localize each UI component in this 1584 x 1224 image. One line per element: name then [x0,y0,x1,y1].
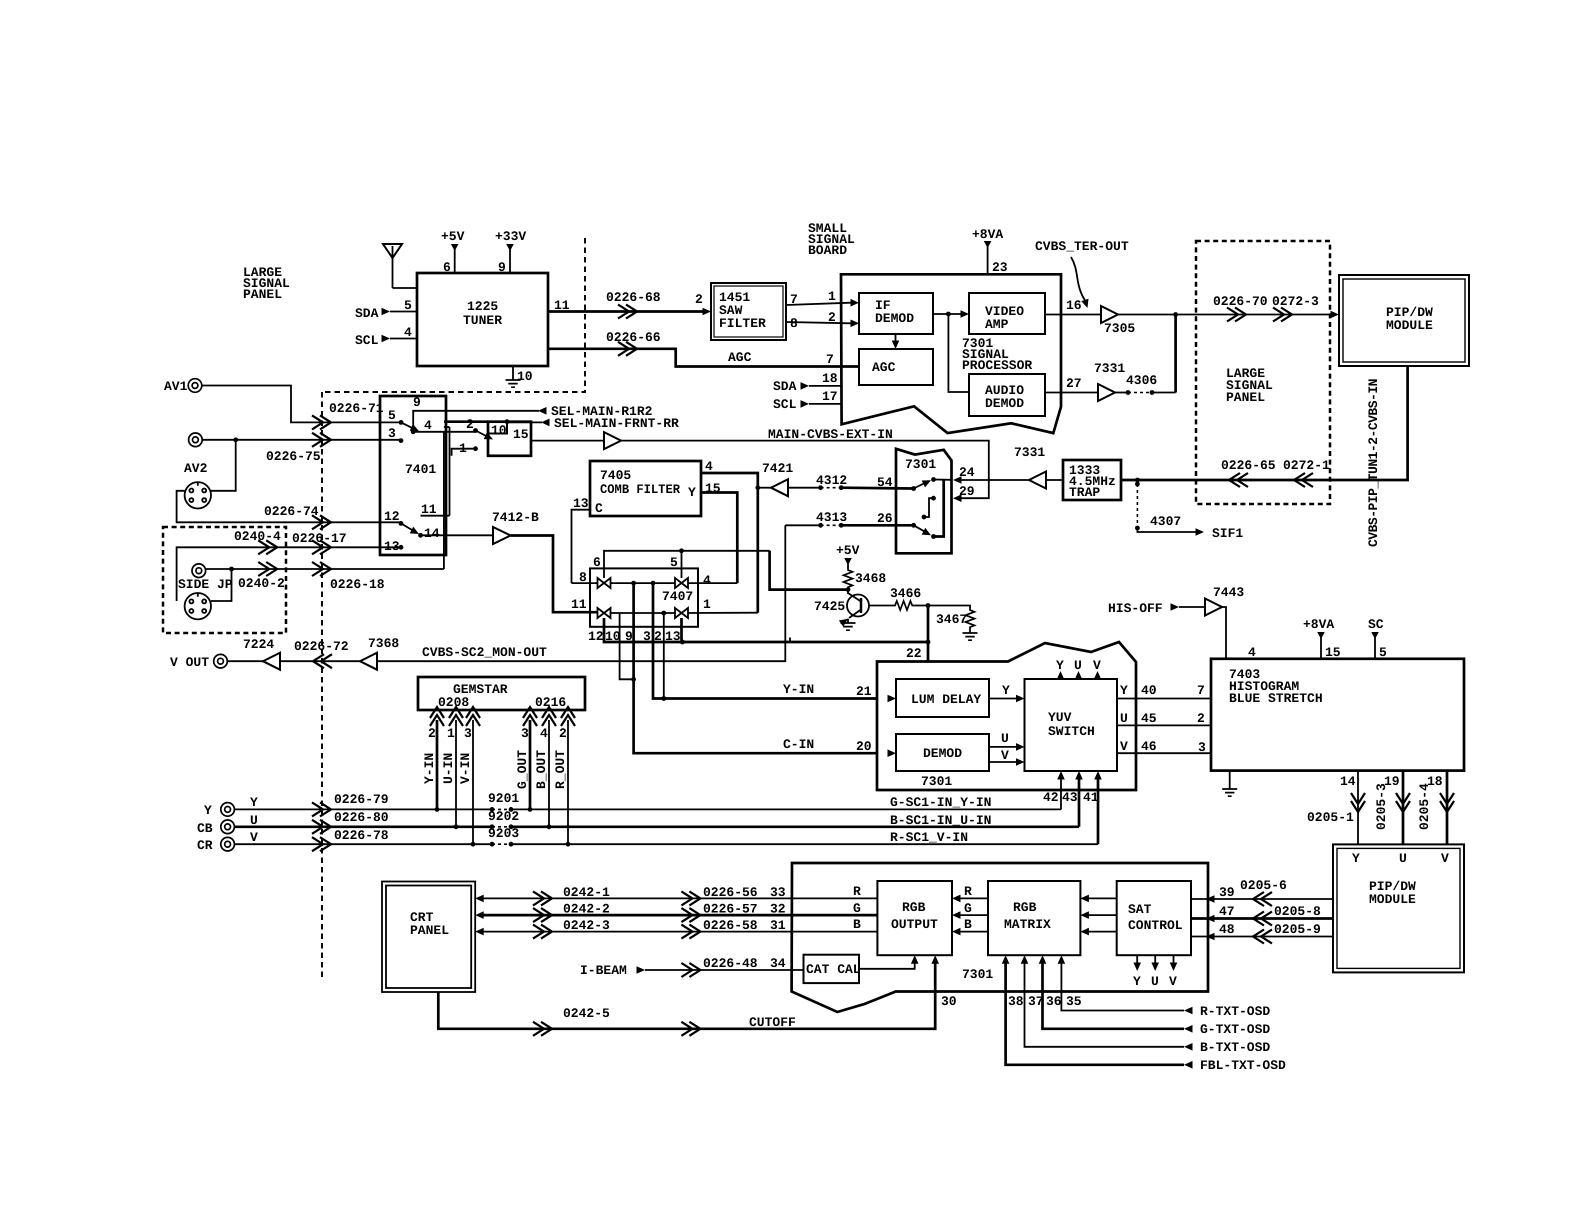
block DEMOD [896,734,989,771]
jumper 9203 [490,842,495,847]
connector side DIN [185,593,211,619]
svg-text:SIF1: SIF1 [1212,526,1243,541]
svg-text:+8VA: +8VA [1303,617,1334,632]
wire audio join video path [1174,315,1177,393]
buffer 7305 [1101,306,1118,323]
wire 7305 to PIP/DW module [1118,314,1332,316]
switch interior wires [934,480,944,537]
svg-text:TUNER: TUNER [463,313,502,328]
svg-text:G-SC1-IN_Y-IN: G-SC1-IN_Y-IN [890,795,991,810]
svg-text:CUTOFF: CUTOFF [749,1015,796,1030]
svg-text:0205-8: 0205-8 [1274,904,1321,919]
wire V-IN gemstar [472,720,474,844]
block LUM DELAY [896,679,989,717]
switch IC 7301 (cvbs select) [896,449,952,554]
svg-text:DEMOD: DEMOD [875,311,914,326]
svg-text:U-IN: U-IN [441,753,456,784]
wire node to YUV pin 22 [927,606,930,662]
svg-text:AV2: AV2 [184,461,208,476]
svg-text:7331: 7331 [1094,361,1125,376]
svg-text:2: 2 [559,726,567,741]
IC 7403 HISTOGRAM BLUE STRETCH [1211,659,1464,771]
wire IF demod to AGC [895,334,897,342]
svg-text:30: 30 [941,994,957,1009]
wire matrix G to rgb output [959,914,988,916]
svg-text:CVBS-SC2_MON-OUT: CVBS-SC2_MON-OUT [422,645,547,660]
svg-text:5: 5 [404,298,412,313]
svg-text:SDA: SDA [355,306,379,321]
wire U-IN gemstar [455,720,457,827]
wire AV2 cvbs to 7401 pin 3, connector 0226-75 [202,439,401,441]
gate top-right [675,578,688,588]
svg-text:Y: Y [1056,658,1064,673]
svg-text:10: 10 [491,423,507,438]
svg-text:38: 38 [1008,994,1024,1009]
svg-text:0242-3: 0242-3 [563,918,610,933]
svg-text:7412-B: 7412-B [492,510,539,525]
svg-text:LUM DELAY: LUM DELAY [911,692,981,707]
svg-text:0226-65: 0226-65 [1221,458,1276,473]
module PIP/DW (bottom) [1333,844,1464,972]
wire 7421 net down [770,551,848,590]
svg-text:RGB: RGB [1013,900,1037,915]
wire AV1 to 7401 pin 5, connector 0226-71 [202,386,401,423]
svg-text:7224: 7224 [243,637,274,652]
wire MAIN-CVBS-EXT-IN with buffer [531,440,604,442]
svg-text:AGC: AGC [872,360,896,375]
svg-text:11: 11 [571,597,587,612]
svg-text:2: 2 [695,292,703,307]
svg-text:U: U [1399,851,1407,866]
svg-text:0240-4: 0240-4 [234,529,281,544]
svg-text:0226-57: 0226-57 [703,902,758,917]
wire PIP pin 48 to SAT, connector 0205-9 [1191,936,1333,938]
svg-text:23: 23 [992,260,1008,275]
wire SEL-MAIN-FRNT-RR [505,419,510,424]
svg-text:7368: 7368 [368,636,399,651]
svg-text:7: 7 [1197,683,1205,698]
wire YUV V out 46 to histogram pin 3 [1117,752,1211,754]
buffer 7368 [360,653,377,670]
svg-text:Y-IN: Y-IN [422,753,437,784]
wire PIP/DW down to trap, connectors 0272-1 0226-65 [1121,366,1408,480]
svg-text:Y: Y [204,803,212,818]
wire YUV Y out 40 to histogram pin 7 [1117,698,1211,700]
svg-text:V-IN: V-IN [458,753,473,784]
svg-text:29: 29 [959,484,975,499]
wire board boundary dashed [322,238,585,392]
buffer 7412-B [421,534,494,536]
svg-text:10: 10 [517,369,533,384]
svg-text:+5V: +5V [836,543,860,558]
block RGB MATRIX [988,881,1080,955]
svg-text:V: V [250,830,258,845]
svg-text:PROCESSOR: PROCESSOR [962,358,1032,373]
svg-text:4: 4 [424,418,432,433]
svg-text:31: 31 [770,918,786,933]
connector chevrons under GEMSTAR [430,707,444,726]
svg-text:0272-1: 0272-1 [1283,458,1330,473]
wire connector 0226-72 [280,660,360,662]
wire 7412-B out to 7407 pin 11 [511,536,598,613]
svg-text:V: V [1169,974,1177,989]
wire B 7412 through gates pin 11 to pin 1 [611,612,676,614]
svg-text:AGC: AGC [728,350,752,365]
wire Y bus G-SC1-IN_Y-IN [234,808,492,810]
svg-text:33: 33 [770,885,786,900]
svg-text:0226-72: 0226-72 [294,639,349,654]
block RGB OUTPUT [877,881,952,955]
svg-text:SWITCH: SWITCH [1048,724,1095,739]
svg-text:0226-79: 0226-79 [334,792,389,807]
svg-text:5: 5 [1379,645,1387,660]
svg-text:V: V [1093,658,1101,673]
svg-text:4306: 4306 [1126,373,1157,388]
svg-text:MODULE: MODULE [1369,892,1416,907]
buffer 7224 [263,653,280,670]
antenna [383,244,402,258]
buffer 7421 [771,479,788,496]
connector AV2 CVBS [189,433,203,447]
svg-text:B_OUT: B_OUT [534,750,549,789]
svg-text:34: 34 [770,956,786,971]
panel CRT PANEL [382,882,475,993]
wire riser pin 43 [1078,778,1081,827]
svg-text:3468: 3468 [855,571,886,586]
wire CAT CAL to RGB output [859,962,915,969]
svg-text:G_OUT: G_OUT [515,750,530,789]
svg-text:5: 5 [388,408,396,423]
switch IC 7407 [590,568,698,626]
svg-text:0272-3: 0272-3 [1272,294,1319,309]
svg-text:5: 5 [670,555,678,570]
svg-text:14: 14 [1340,774,1356,789]
svg-text:6: 6 [593,555,601,570]
svg-text:7331: 7331 [1014,445,1045,460]
svg-text:7407: 7407 [662,589,693,604]
svg-text:B: B [964,917,972,932]
block SAT CONTROL [1117,881,1191,955]
svg-text:13: 13 [384,539,400,554]
svg-text:45: 45 [1141,711,1157,726]
svg-text:V OUT: V OUT [170,655,209,670]
svg-text:COMB FILTER: COMB FILTER [600,482,680,497]
svg-text:1: 1 [703,597,711,612]
switch IC 7401 [380,396,446,555]
svg-text:0226-80: 0226-80 [334,810,389,825]
wire G to CRT, connectors 0242-2 0226-57 pin 32 [475,911,484,919]
wire riser pin 42 [1060,778,1062,809]
ground transistor emitter [847,619,849,623]
svg-text:3466: 3466 [890,586,921,601]
svg-text:42: 42 [1043,790,1059,805]
svg-text:32: 32 [770,902,786,917]
svg-text:G: G [964,901,972,916]
svg-text:0242-1: 0242-1 [563,885,610,900]
jumper 9202 [490,824,495,829]
svg-text:16: 16 [1066,298,1082,313]
svg-text:0226-70: 0226-70 [1213,294,1268,309]
svg-text:0205-4: 0205-4 [1417,783,1432,830]
jumper 4312 [788,487,821,489]
svg-text:0226-71: 0226-71 [329,401,384,416]
svg-text:0226-56: 0226-56 [703,885,758,900]
svg-text:9203: 9203 [488,826,519,841]
svg-text:DEMOD: DEMOD [985,396,1024,411]
svg-text:43: 43 [1062,790,1078,805]
svg-text:0226-78: 0226-78 [334,828,389,843]
svg-text:21: 21 [856,684,872,699]
svg-text:0242-5: 0242-5 [563,1006,610,1021]
svg-text:27: 27 [1066,376,1082,391]
svg-text:B-SC1-IN_U-IN: B-SC1-IN_U-IN [890,813,991,828]
svg-text:12: 12 [588,629,604,644]
switch lever pin 54 [911,486,916,491]
svg-text:DEMOD: DEMOD [923,746,962,761]
wire CUTOFF to pin 30 [438,962,935,1029]
dashed LARGE SIGNAL PANEL box [1196,241,1330,504]
wire tuner AGC out, connector 0226-66 [548,349,859,367]
svg-text:PANEL: PANEL [410,923,449,938]
svg-text:3467: 3467 [936,612,967,627]
ground histogram [1229,771,1231,789]
svg-text:+5V: +5V [441,229,465,244]
svg-text:BLUE STRETCH: BLUE STRETCH [1229,691,1323,706]
block YUV SWITCH [1025,679,1118,771]
svg-text:U: U [1151,974,1159,989]
wire sat to matrix B [1087,931,1117,933]
wire AV2 DIN to 7401 pin 12, connector 0226-74 [177,491,401,523]
wire matrix B to rgb output [959,931,988,933]
wire V OUT to buffer 7224 [227,660,263,662]
svg-text:SCL: SCL [773,397,797,412]
wire matrix R to rgb output [959,897,988,899]
wire riser pin 41 [1097,778,1100,844]
wire R to CRT, connectors 0242-1 0226-56 pin 33 [475,895,484,903]
svg-text:B-TXT-OSD: B-TXT-OSD [1200,1040,1270,1055]
svg-text:15: 15 [513,427,529,442]
svg-text:4312: 4312 [816,473,847,488]
svg-text:0226-66: 0226-66 [606,330,661,345]
box pins 10 15 [488,422,531,456]
svg-text:MATRIX: MATRIX [1004,917,1051,932]
wire side DIN to 7401 pin 13, connectors 0240-4 0226-17 [177,547,401,601]
svg-text:SCL: SCL [355,333,379,348]
svg-text:U: U [1001,731,1009,746]
svg-text:46: 46 [1141,739,1157,754]
wire IF demod to video amp, junction [933,313,962,315]
svg-text:0205-3: 0205-3 [1374,783,1389,830]
wire PIP pin 39 to SAT, connector 0205-6 [1191,898,1333,900]
filter 1451 SAW FILTER [711,283,786,340]
module GEMSTAR [418,677,585,710]
svg-text:40: 40 [1141,683,1157,698]
wire G-TXT-OSD to matrix pin 36 [1043,962,1185,1029]
svg-text:0205-6: 0205-6 [1240,878,1287,893]
block AGC [859,349,933,385]
jumper 4306 [1115,392,1128,394]
resistor 3468 [844,568,853,589]
svg-text:0226-18: 0226-18 [330,577,385,592]
svg-text:7443: 7443 [1213,585,1244,600]
block VIDEO AMP [969,293,1045,334]
jumper 4307 to SIF1 [1135,478,1140,483]
wire PIP pin 47 to SAT, connector 0205-8 [1191,917,1333,920]
svg-text:V: V [1441,851,1449,866]
svg-text:OUTPUT: OUTPUT [891,917,938,932]
buffer 7443 [1205,599,1222,616]
wire 7407 pin 5 riser [681,551,683,578]
IC 7301 RGB section outline [792,863,1208,1012]
svg-text:2: 2 [1197,711,1205,726]
ground tuner pin 10 [512,366,514,380]
svg-text:SC: SC [1368,617,1384,632]
wire 7407 pin 13 gate riser [680,618,683,642]
wire B_OUT gemstar [548,720,550,827]
svg-text:2: 2 [466,417,474,432]
svg-text:7425: 7425 [814,599,845,614]
svg-text:4307: 4307 [1150,514,1181,529]
wire FBL-TXT-OSD to matrix pin 38 [1006,962,1184,1065]
svg-text:3: 3 [521,726,529,741]
svg-text:1225: 1225 [467,299,498,314]
svg-text:CAT CAL: CAT CAL [806,962,861,977]
wire G_OUT gemstar [529,720,532,809]
svg-text:Y: Y [688,485,696,500]
svg-text:YUV: YUV [1048,710,1072,725]
svg-text:1: 1 [828,289,836,304]
wire R-TXT-OSD to matrix pin 35 [1061,962,1184,1011]
svg-text:Y-IN: Y-IN [783,682,814,697]
svg-text:15: 15 [1325,645,1341,660]
svg-text:MAIN-CVBS-EXT-IN: MAIN-CVBS-EXT-IN [768,427,893,442]
wire R_OUT gemstar [567,720,569,844]
svg-text:MODULE: MODULE [1386,318,1433,333]
svg-text:Y: Y [1002,683,1010,698]
svg-text:7405: 7405 [600,468,631,483]
wire trap out to switch pin 24 [955,479,1029,481]
svg-text:Y: Y [1120,683,1128,698]
wire video amp pin 16 to buffer 7305 [1045,314,1101,316]
svg-text:7: 7 [826,352,834,367]
svg-text:CB: CB [197,821,213,836]
svg-text:SDA: SDA [773,379,797,394]
svg-text:4: 4 [404,325,412,340]
svg-text:CVBS_TER-OUT: CVBS_TER-OUT [1035,239,1129,254]
svg-text:24: 24 [959,465,975,480]
svg-text:22: 22 [906,646,922,661]
svg-text:AMP: AMP [985,317,1009,332]
wire YUV U out 45 to histogram pin 2 [1117,724,1211,726]
svg-text:0226-68: 0226-68 [606,290,661,305]
svg-text:FBL-TXT-OSD: FBL-TXT-OSD [1200,1058,1286,1073]
svg-text:CONTROL: CONTROL [1128,918,1183,933]
wire V bus R-SC1_V-IN [234,843,492,845]
block CAT CAL [804,955,860,983]
svg-text:12: 12 [384,509,400,524]
wire to switch pin 54 [841,486,913,489]
svg-text:0226-74: 0226-74 [264,504,319,519]
svg-text:41: 41 [1083,790,1099,805]
svg-text:0242-2: 0242-2 [563,902,610,917]
svg-text:I-BEAM: I-BEAM [580,963,627,978]
module PIP/DW (top) [1339,275,1469,366]
buffer 7331 (left) [1046,479,1063,481]
resistor 3467 [928,606,970,609]
resistor 3466 [869,605,893,607]
svg-text:U: U [1120,711,1128,726]
svg-text:2: 2 [828,310,836,325]
svg-text:47: 47 [1219,904,1235,919]
wire antenna to tuner [393,287,418,289]
svg-text:3: 3 [388,426,396,441]
svg-text:20: 20 [856,739,872,754]
connector side RCA [192,564,206,578]
svg-text:TRAP: TRAP [1069,485,1100,500]
svg-text:35: 35 [1066,994,1082,1009]
svg-text:SAT: SAT [1128,902,1152,917]
svg-text:17: 17 [822,389,838,404]
svg-text:14: 14 [424,526,440,541]
svg-text:R-TXT-OSD: R-TXT-OSD [1200,1004,1270,1019]
svg-text:1: 1 [447,726,455,741]
svg-text:7301: 7301 [962,967,993,982]
wire B-TXT-OSD to matrix pin 37 [1025,962,1185,1047]
svg-text:9: 9 [413,395,421,410]
wire AV2 junction to DIN [211,440,236,491]
svg-text:11: 11 [421,502,437,517]
svg-text:G-TXT-OSD: G-TXT-OSD [1200,1022,1270,1037]
svg-text:PANEL: PANEL [1226,390,1265,405]
svg-text:3: 3 [1198,740,1206,755]
wire sat to matrix R [1087,897,1117,899]
svg-text:Y: Y [1352,851,1360,866]
svg-text:SIDE JP: SIDE JP [178,577,233,592]
svg-text:7301: 7301 [905,457,936,472]
dashed SIDE JP box [163,527,286,633]
switch lever pin 26 [911,523,916,528]
svg-text:4: 4 [703,573,711,588]
svg-text:13: 13 [573,496,589,511]
svg-text:HIS-OFF: HIS-OFF [1108,601,1163,616]
svg-text:Y: Y [1133,974,1141,989]
svg-text:CVBS-PIP_TUN1-2-CVBS-IN: CVBS-PIP_TUN1-2-CVBS-IN [1366,379,1381,547]
svg-text:RGB: RGB [902,900,926,915]
svg-text:18: 18 [822,371,838,386]
wire histogram pin 18 to PIP, connector 0205-4 [1446,771,1449,845]
sat control bottom Y U V pins [1136,955,1138,965]
tuner 1225 [417,273,548,366]
svg-text:R: R [964,884,972,899]
svg-text:0208: 0208 [438,695,469,710]
block AUDIO DEMOD [969,374,1045,416]
svg-text:48: 48 [1219,922,1235,937]
svg-text:B: B [853,917,861,932]
wire demod U to yuv switch [989,746,1017,748]
svg-text:0205-1: 0205-1 [1307,810,1354,825]
svg-text:FILTER: FILTER [719,316,766,331]
svg-text:C: C [595,501,603,516]
svg-text:C-IN: C-IN [783,737,814,752]
wire sat to matrix G [1087,914,1117,916]
wire comb C bus above 7407 [604,551,770,578]
gate top-left [598,578,611,588]
block IF DEMOD [859,293,933,334]
wire 7407 pin 12 down and across to YUV pin 22 net [604,618,928,642]
svg-text:G: G [853,901,861,916]
wire B to CRT, connectors 0242-3 0226-58 pin 31 [475,928,484,936]
svg-text:4313: 4313 [816,510,847,525]
